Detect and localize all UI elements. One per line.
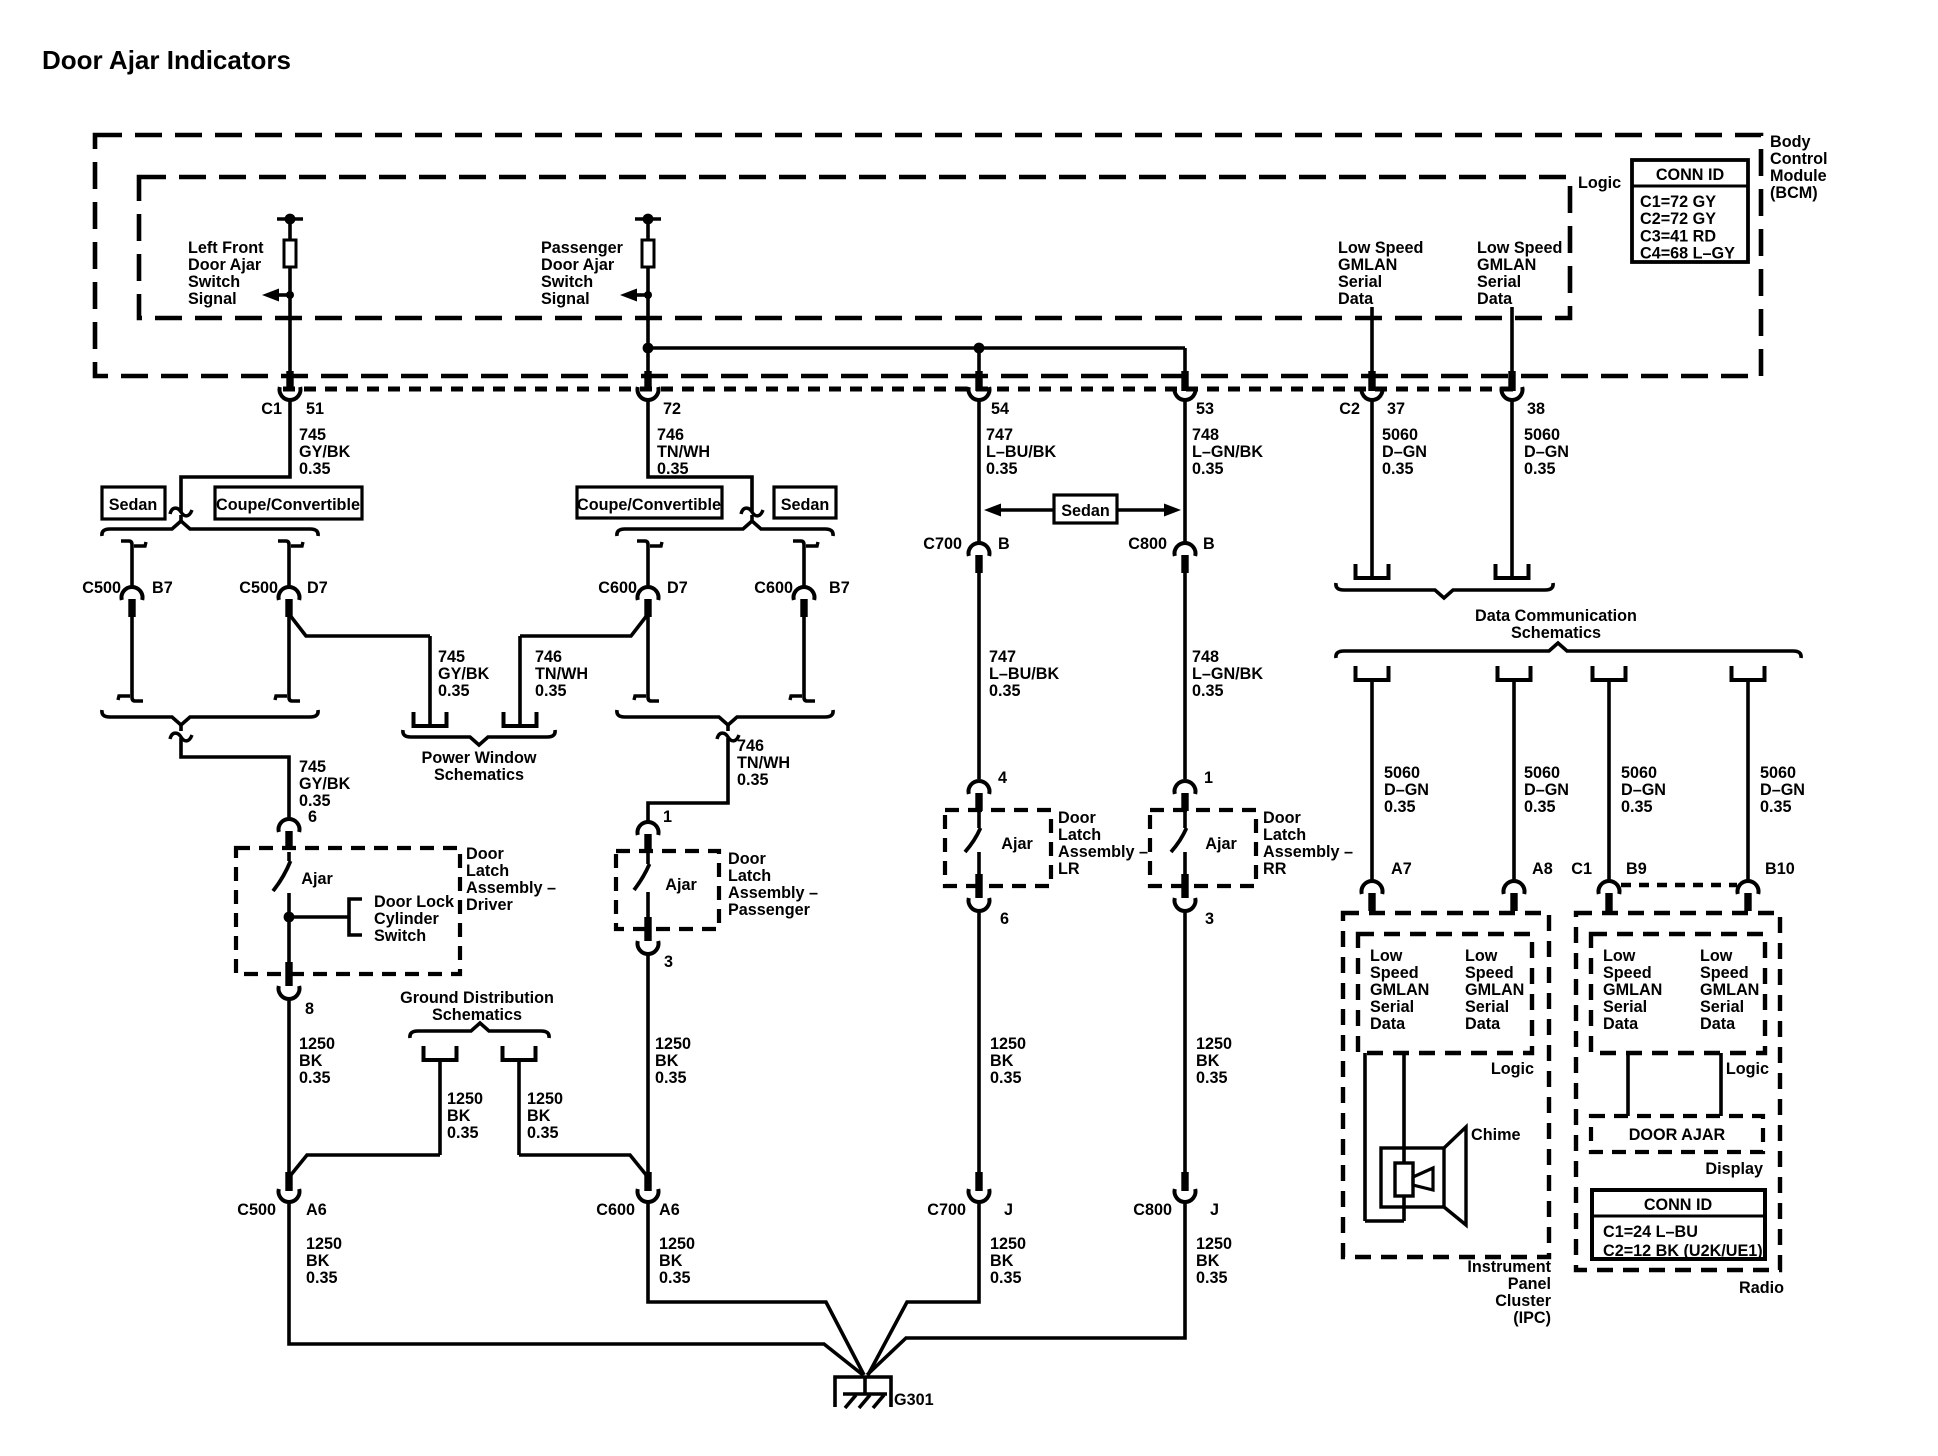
svg-text:0.35: 0.35 <box>438 682 470 700</box>
svg-text:GY/BK: GY/BK <box>299 775 351 793</box>
svg-text:Assembly –: Assembly – <box>728 884 818 902</box>
svg-text:37: 37 <box>1387 400 1405 418</box>
svg-text:B9: B9 <box>1626 860 1647 878</box>
svg-text:Switch: Switch <box>374 927 426 945</box>
svg-text:1250: 1250 <box>527 1090 563 1108</box>
svg-text:Data: Data <box>1700 1015 1736 1033</box>
svg-text:D–GN: D–GN <box>1384 781 1429 799</box>
svg-text:J: J <box>1004 1201 1013 1219</box>
svg-text:A6: A6 <box>306 1201 327 1219</box>
svg-text:8: 8 <box>305 1000 314 1018</box>
svg-text:1250: 1250 <box>990 1035 1026 1053</box>
svg-text:0.35: 0.35 <box>306 1269 338 1287</box>
svg-text:TN/WH: TN/WH <box>737 754 790 772</box>
svg-text:Door Ajar Indicators: Door Ajar Indicators <box>42 45 291 75</box>
svg-text:1250: 1250 <box>1196 1035 1232 1053</box>
svg-text:C2=72 GY: C2=72 GY <box>1640 210 1716 228</box>
svg-text:LR: LR <box>1058 860 1080 878</box>
svg-text:Assembly –: Assembly – <box>1058 843 1148 861</box>
svg-text:1250: 1250 <box>447 1090 483 1108</box>
svg-text:C500: C500 <box>82 579 121 597</box>
svg-text:5060: 5060 <box>1524 426 1560 444</box>
svg-text:72: 72 <box>663 400 681 418</box>
svg-text:C800: C800 <box>1133 1201 1172 1219</box>
svg-text:Serial: Serial <box>1603 998 1647 1016</box>
svg-text:G301: G301 <box>894 1391 934 1409</box>
svg-text:Data Communication: Data Communication <box>1475 607 1637 625</box>
svg-text:1250: 1250 <box>655 1035 691 1053</box>
svg-text:C600: C600 <box>596 1201 635 1219</box>
svg-text:1250: 1250 <box>1196 1235 1232 1253</box>
svg-text:Assembly –: Assembly – <box>1263 843 1353 861</box>
svg-text:0.35: 0.35 <box>659 1269 691 1287</box>
svg-text:D–GN: D–GN <box>1524 443 1569 461</box>
svg-text:4: 4 <box>998 769 1007 787</box>
svg-text:BK: BK <box>990 1252 1014 1270</box>
svg-text:0.35: 0.35 <box>990 1269 1022 1287</box>
svg-text:C800: C800 <box>1128 535 1167 553</box>
svg-text:Left Front: Left Front <box>188 239 264 257</box>
svg-text:Switch: Switch <box>541 273 593 291</box>
svg-text:C2=12 BK (U2K/UE1): C2=12 BK (U2K/UE1) <box>1603 1242 1763 1260</box>
svg-text:Speed: Speed <box>1700 964 1749 982</box>
svg-text:A7: A7 <box>1391 860 1412 878</box>
svg-text:Serial: Serial <box>1465 998 1509 1016</box>
svg-text:748: 748 <box>1192 648 1219 666</box>
svg-text:Ajar: Ajar <box>665 876 697 894</box>
svg-text:Serial: Serial <box>1370 998 1414 1016</box>
svg-text:746: 746 <box>535 648 562 666</box>
svg-text:0.35: 0.35 <box>990 1069 1022 1087</box>
svg-text:C1: C1 <box>1571 860 1592 878</box>
svg-text:0.35: 0.35 <box>1192 682 1224 700</box>
svg-text:Coupe/Convertible: Coupe/Convertible <box>577 496 721 514</box>
svg-text:6: 6 <box>308 808 317 826</box>
svg-text:Low: Low <box>1465 947 1498 965</box>
svg-text:Speed: Speed <box>1603 964 1652 982</box>
svg-text:D–GN: D–GN <box>1524 781 1569 799</box>
svg-text:DOOR AJAR: DOOR AJAR <box>1629 1126 1726 1144</box>
svg-text:Cylinder: Cylinder <box>374 910 439 928</box>
svg-text:C700: C700 <box>923 535 962 553</box>
svg-text:Instrument: Instrument <box>1467 1258 1551 1276</box>
svg-text:B: B <box>998 535 1010 553</box>
svg-text:Serial: Serial <box>1477 273 1521 291</box>
svg-text:C1=72 GY: C1=72 GY <box>1640 193 1716 211</box>
svg-text:A8: A8 <box>1532 860 1553 878</box>
svg-text:Data: Data <box>1338 290 1374 308</box>
svg-text:746: 746 <box>737 737 764 755</box>
svg-text:1: 1 <box>1204 769 1213 787</box>
svg-text:Door: Door <box>728 850 766 868</box>
svg-text:Chime: Chime <box>1471 1126 1520 1144</box>
svg-text:Latch: Latch <box>728 867 771 885</box>
svg-text:Low: Low <box>1700 947 1733 965</box>
svg-text:5060: 5060 <box>1760 764 1796 782</box>
svg-text:GMLAN: GMLAN <box>1370 981 1429 999</box>
svg-text:Ground Distribution: Ground Distribution <box>400 989 554 1007</box>
svg-text:Door Lock: Door Lock <box>374 893 455 911</box>
svg-text:748: 748 <box>1192 426 1219 444</box>
svg-text:Door: Door <box>466 845 504 863</box>
svg-text:BK: BK <box>299 1052 323 1070</box>
svg-text:GY/BK: GY/BK <box>299 443 351 461</box>
svg-text:BK: BK <box>306 1252 330 1270</box>
svg-text:Ajar: Ajar <box>301 870 333 888</box>
svg-text:0.35: 0.35 <box>1196 1269 1228 1287</box>
svg-text:0.35: 0.35 <box>1196 1069 1228 1087</box>
svg-text:Sedan: Sedan <box>781 496 830 514</box>
svg-text:0.35: 0.35 <box>655 1069 687 1087</box>
svg-text:BK: BK <box>1196 1252 1220 1270</box>
svg-text:Schematics: Schematics <box>432 1006 522 1024</box>
svg-text:0.35: 0.35 <box>447 1124 479 1142</box>
svg-text:CONN ID: CONN ID <box>1644 1196 1713 1214</box>
svg-text:B7: B7 <box>152 579 173 597</box>
svg-text:B10: B10 <box>1765 860 1795 878</box>
svg-text:C600: C600 <box>754 579 793 597</box>
svg-text:0.35: 0.35 <box>737 771 769 789</box>
svg-text:GMLAN: GMLAN <box>1477 256 1536 274</box>
svg-text:Logic: Logic <box>1491 1060 1534 1078</box>
svg-text:D–GN: D–GN <box>1760 781 1805 799</box>
svg-text:0.35: 0.35 <box>299 1069 331 1087</box>
svg-text:Signal: Signal <box>188 290 237 308</box>
svg-text:747: 747 <box>986 426 1013 444</box>
svg-text:3: 3 <box>1205 910 1214 928</box>
svg-text:38: 38 <box>1527 400 1545 418</box>
svg-text:745: 745 <box>438 648 465 666</box>
svg-text:Door Ajar: Door Ajar <box>541 256 615 274</box>
svg-text:1250: 1250 <box>306 1235 342 1253</box>
svg-text:5060: 5060 <box>1382 426 1418 444</box>
svg-text:J: J <box>1210 1201 1219 1219</box>
svg-text:Data: Data <box>1465 1015 1501 1033</box>
svg-text:Radio: Radio <box>1739 1279 1784 1297</box>
svg-text:C600: C600 <box>598 579 637 597</box>
svg-text:C3=41 RD: C3=41 RD <box>1640 227 1716 245</box>
svg-text:GMLAN: GMLAN <box>1700 981 1759 999</box>
svg-text:Coupe/Convertible: Coupe/Convertible <box>216 496 360 514</box>
svg-text:GY/BK: GY/BK <box>438 665 490 683</box>
svg-text:1250: 1250 <box>299 1035 335 1053</box>
svg-text:L–GN/BK: L–GN/BK <box>1192 665 1263 683</box>
svg-text:0.35: 0.35 <box>986 460 1018 478</box>
svg-text:TN/WH: TN/WH <box>535 665 588 683</box>
svg-text:Latch: Latch <box>466 862 509 880</box>
svg-text:CONN ID: CONN ID <box>1656 166 1725 184</box>
svg-text:(IPC): (IPC) <box>1513 1309 1551 1327</box>
svg-text:5060: 5060 <box>1524 764 1560 782</box>
svg-text:Schematics: Schematics <box>1511 624 1601 642</box>
svg-text:L–GN/BK: L–GN/BK <box>1192 443 1263 461</box>
svg-text:6: 6 <box>1000 910 1009 928</box>
svg-text:0.35: 0.35 <box>1384 798 1416 816</box>
svg-text:(BCM): (BCM) <box>1770 184 1818 202</box>
svg-text:0.35: 0.35 <box>1382 460 1414 478</box>
svg-text:746: 746 <box>657 426 684 444</box>
svg-text:B: B <box>1203 535 1215 553</box>
svg-text:Panel: Panel <box>1508 1275 1551 1293</box>
svg-text:Display: Display <box>1705 1160 1763 1178</box>
svg-text:Cluster: Cluster <box>1495 1292 1551 1310</box>
svg-text:BK: BK <box>990 1052 1014 1070</box>
svg-text:0.35: 0.35 <box>1621 798 1653 816</box>
svg-text:0.35: 0.35 <box>535 682 567 700</box>
svg-text:53: 53 <box>1196 400 1214 418</box>
svg-text:0.35: 0.35 <box>1760 798 1792 816</box>
svg-text:RR: RR <box>1263 860 1287 878</box>
svg-text:51: 51 <box>306 400 324 418</box>
svg-text:Control: Control <box>1770 150 1828 168</box>
svg-text:Latch: Latch <box>1263 826 1306 844</box>
svg-text:0.35: 0.35 <box>1524 460 1556 478</box>
svg-text:0.35: 0.35 <box>1524 798 1556 816</box>
svg-text:BK: BK <box>527 1107 551 1125</box>
svg-text:Low Speed: Low Speed <box>1477 239 1562 257</box>
svg-text:GMLAN: GMLAN <box>1603 981 1662 999</box>
svg-text:C2: C2 <box>1339 400 1360 418</box>
svg-text:Module: Module <box>1770 167 1827 185</box>
svg-text:L–BU/BK: L–BU/BK <box>989 665 1059 683</box>
svg-text:1250: 1250 <box>659 1235 695 1253</box>
svg-text:Power Window: Power Window <box>422 749 537 767</box>
svg-text:Ajar: Ajar <box>1001 835 1033 853</box>
svg-text:Door: Door <box>1263 809 1301 827</box>
svg-text:Driver: Driver <box>466 896 513 914</box>
svg-text:5060: 5060 <box>1621 764 1657 782</box>
svg-text:Signal: Signal <box>541 290 590 308</box>
svg-text:D–GN: D–GN <box>1621 781 1666 799</box>
svg-text:Serial: Serial <box>1338 273 1382 291</box>
svg-text:Schematics: Schematics <box>434 766 524 784</box>
svg-text:0.35: 0.35 <box>299 460 331 478</box>
svg-text:0.35: 0.35 <box>989 682 1021 700</box>
svg-text:Serial: Serial <box>1700 998 1744 1016</box>
svg-text:Door: Door <box>1058 809 1096 827</box>
svg-text:1: 1 <box>663 808 672 826</box>
svg-text:Low Speed: Low Speed <box>1338 239 1423 257</box>
svg-text:C4=68 L–GY: C4=68 L–GY <box>1640 245 1735 263</box>
svg-text:A6: A6 <box>659 1201 680 1219</box>
svg-text:C500: C500 <box>239 579 278 597</box>
svg-text:C1=24 L–BU: C1=24 L–BU <box>1603 1223 1698 1241</box>
svg-text:Door Ajar: Door Ajar <box>188 256 262 274</box>
svg-text:BK: BK <box>659 1252 683 1270</box>
svg-text:GMLAN: GMLAN <box>1465 981 1524 999</box>
svg-text:C1: C1 <box>261 400 282 418</box>
svg-text:Body: Body <box>1770 133 1810 151</box>
svg-text:Switch: Switch <box>188 273 240 291</box>
svg-text:Data: Data <box>1603 1015 1639 1033</box>
svg-text:L–BU/BK: L–BU/BK <box>986 443 1056 461</box>
svg-text:Logic: Logic <box>1726 1060 1769 1078</box>
svg-text:747: 747 <box>989 648 1016 666</box>
svg-text:5060: 5060 <box>1384 764 1420 782</box>
svg-text:745: 745 <box>299 426 326 444</box>
svg-text:Sedan: Sedan <box>1061 502 1110 520</box>
svg-text:Ajar: Ajar <box>1205 835 1237 853</box>
svg-text:Passenger: Passenger <box>728 901 811 919</box>
svg-text:D–GN: D–GN <box>1382 443 1427 461</box>
svg-text:BK: BK <box>447 1107 471 1125</box>
svg-text:D7: D7 <box>667 579 688 597</box>
svg-text:Data: Data <box>1477 290 1513 308</box>
svg-text:C700: C700 <box>927 1201 966 1219</box>
svg-text:Passenger: Passenger <box>541 239 624 257</box>
svg-text:0.35: 0.35 <box>1192 460 1224 478</box>
svg-text:C500: C500 <box>237 1201 276 1219</box>
svg-text:54: 54 <box>991 400 1009 418</box>
svg-text:BK: BK <box>655 1052 679 1070</box>
svg-text:Low: Low <box>1370 947 1403 965</box>
svg-text:Assembly –: Assembly – <box>466 879 556 897</box>
svg-text:B7: B7 <box>829 579 850 597</box>
svg-text:Low: Low <box>1603 947 1636 965</box>
svg-text:Logic: Logic <box>1578 174 1621 192</box>
svg-text:Data: Data <box>1370 1015 1406 1033</box>
svg-text:D7: D7 <box>307 579 328 597</box>
svg-text:3: 3 <box>664 953 673 971</box>
svg-text:BK: BK <box>1196 1052 1220 1070</box>
svg-text:Speed: Speed <box>1465 964 1514 982</box>
svg-text:0.35: 0.35 <box>527 1124 559 1142</box>
svg-text:TN/WH: TN/WH <box>657 443 710 461</box>
svg-text:1250: 1250 <box>990 1235 1026 1253</box>
svg-text:Speed: Speed <box>1370 964 1419 982</box>
svg-text:Sedan: Sedan <box>109 496 158 514</box>
svg-text:Latch: Latch <box>1058 826 1101 844</box>
svg-text:745: 745 <box>299 758 326 776</box>
svg-text:GMLAN: GMLAN <box>1338 256 1397 274</box>
